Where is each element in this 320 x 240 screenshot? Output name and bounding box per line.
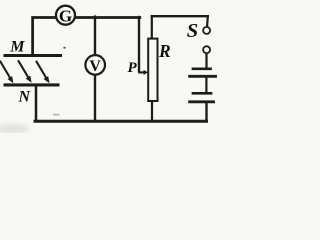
battery cell2 short plate	[193, 92, 211, 95]
faint scan haze bottom-left corner	[0, 124, 29, 135]
wire rheostat top lead	[151, 16, 153, 38]
wire battery middle	[205, 78, 207, 92]
svg-text:V: V	[89, 58, 101, 75]
svg-text:G: G	[59, 6, 72, 25]
plate M	[4, 54, 63, 57]
battery cell1 long plate	[190, 75, 216, 78]
svg-text:M: M	[9, 39, 25, 56]
wire rheostat bottom lead	[151, 101, 153, 121]
wire battery to bottom wire	[205, 103, 207, 121]
battery cell1 short plate	[193, 67, 211, 70]
switch S terminal bottom	[203, 46, 210, 53]
svg-text:N: N	[18, 88, 32, 105]
svg-text:P: P	[128, 60, 138, 76]
light arrow 1	[0, 62, 15, 85]
light arrow 2	[19, 61, 34, 84]
wire voltmeter bottom branch	[94, 76, 96, 121]
wire top-middle (galvanometer to corner above slider)	[76, 16, 140, 19]
voltmeter V	[85, 55, 105, 75]
slider arrow P	[139, 70, 148, 75]
wire left-bottom vertical (plate N to bottom wire)	[35, 87, 38, 122]
light arrow 3	[37, 62, 52, 85]
bottom wire	[35, 120, 207, 123]
plate N	[4, 83, 60, 86]
svg-text:R: R	[158, 41, 171, 61]
battery cell2 long plate	[190, 100, 214, 103]
wire voltmeter top branch	[94, 17, 96, 55]
galvanometer G	[56, 6, 75, 26]
speck above plate M right end	[63, 47, 65, 49]
rheostat R body	[148, 39, 157, 101]
wire top-left (plate M down-corner to galvanometer)	[33, 18, 56, 55]
svg-text:S: S	[187, 20, 198, 42]
switch S terminal top	[203, 27, 210, 34]
wire switch upper lead	[206, 16, 209, 26]
faint dash above bottom wire	[53, 114, 60, 116]
wire top-right (rheostat to switch)	[152, 15, 208, 17]
wire right corner down to slider	[138, 17, 140, 71]
wire switch to battery	[205, 54, 207, 68]
